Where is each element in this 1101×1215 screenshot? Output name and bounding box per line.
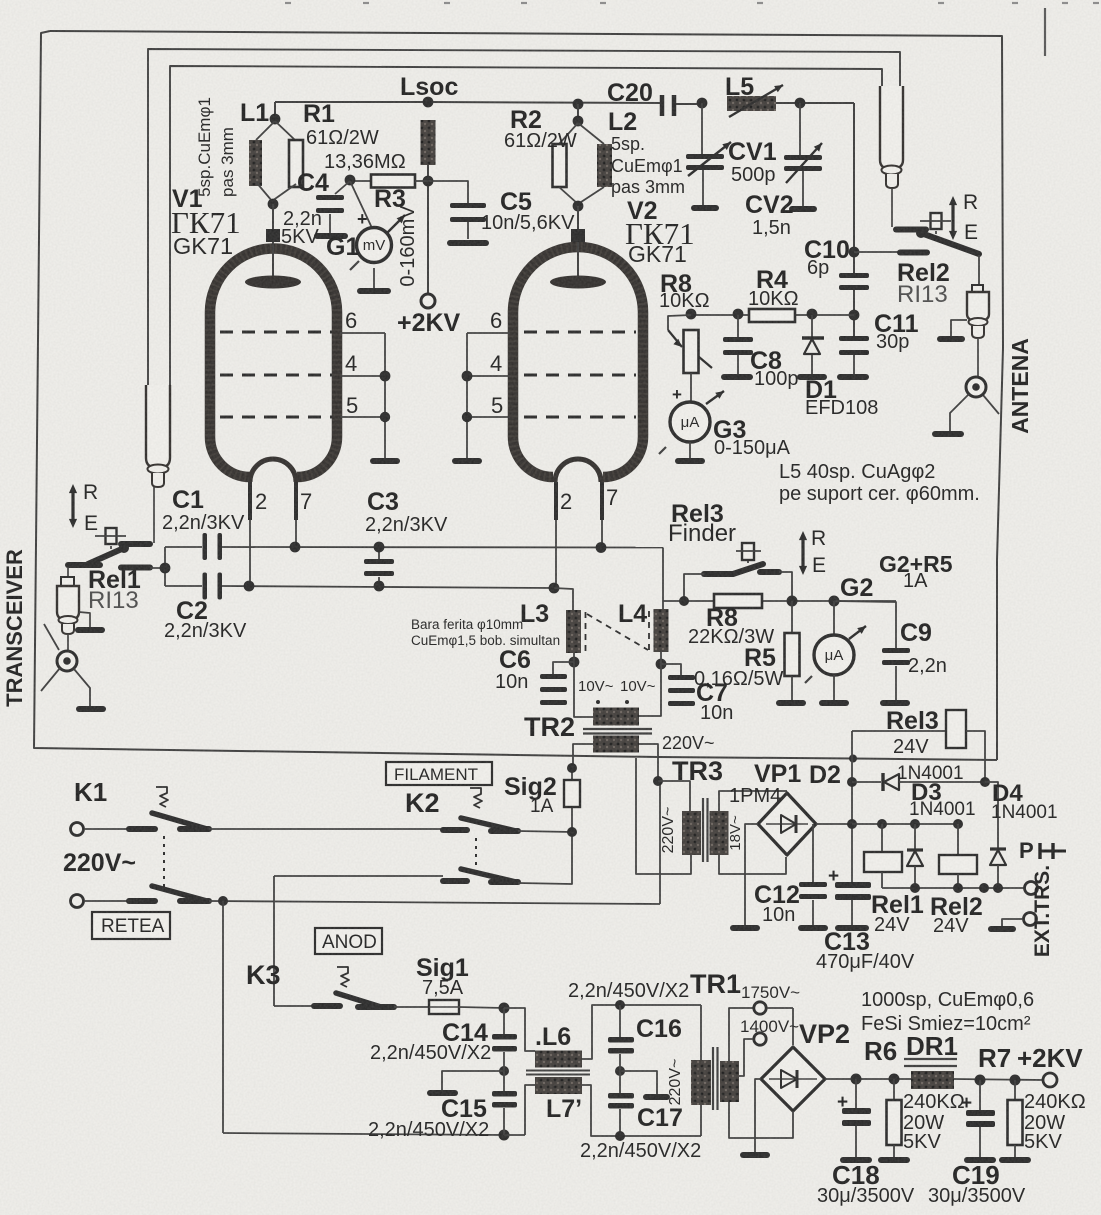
node junction on bottom border wire [849, 755, 857, 763]
wire V2 pin5 [467, 416, 510, 418]
wire mains upper to K2 [209, 828, 443, 830]
variable capacitor CV2 [799, 103, 801, 155]
inductor L2 [597, 144, 612, 187]
coax plug lower (cable to Rel1) [146, 385, 170, 468]
terminal EXT.TRS. [1024, 913, 1037, 926]
ground antenna jack [932, 431, 964, 437]
node V2 anode tap [573, 99, 584, 110]
wire row B to L3 drop [554, 588, 573, 610]
ground C11 [837, 374, 869, 380]
relay Rel3 coil (24V) [851, 731, 853, 758]
resistor R7 bleeder [1014, 1080, 1016, 1100]
transformer TR1 primary [700, 1005, 702, 1060]
resistor R3 13,36M [352, 180, 371, 182]
capacitor C15 [492, 1091, 517, 1097]
V1 anode plate [245, 276, 301, 289]
K1 link dotted [163, 836, 165, 888]
ground C8 [721, 374, 753, 380]
wire antenna tap diagonal [983, 395, 999, 414]
capacitor C19 electrolytic [979, 1080, 981, 1110]
node C3 top [374, 542, 385, 553]
wire K2 pole2 to fuse node [518, 832, 572, 884]
Rel1 switch arm [88, 548, 124, 564]
wire V1 pin5 [340, 416, 385, 418]
wire VP2 minus/ground [755, 1079, 761, 1152]
rectifier bridge VP2 [761, 1047, 825, 1111]
capacitor C18 electrolytic [855, 1079, 857, 1109]
wire TR3 sec bottom to VP1 [719, 855, 786, 874]
antenna jack [966, 377, 986, 397]
tube V1 GK71 envelope [210, 249, 337, 477]
ground C13 [835, 925, 869, 931]
node V1 pin4 [380, 371, 391, 382]
transceiver jack [57, 651, 77, 671]
wire K2 second feed [274, 875, 443, 877]
terminal K1 lower [71, 895, 84, 908]
node Lsoc top [423, 97, 434, 108]
V2 top cap terminal [571, 229, 585, 242]
relay Rel2 coil (24V) [957, 824, 959, 855]
scan artifacts top edge [285, 2, 291, 4]
wire lower contact to node [150, 567, 165, 569]
Rel3 switch arm [733, 564, 763, 574]
wire plug to antenna jack [977, 338, 979, 377]
node rowB tie [160, 563, 171, 574]
relay Rel1 R/E arrow [71, 490, 74, 522]
wire to V2 top cap [577, 206, 579, 230]
inductor L4 (filament choke) [654, 609, 669, 652]
wire L3 to TR2 sec left [574, 653, 594, 717]
terminal +2KV (top) [421, 294, 435, 308]
node C16/C17 mid [615, 1066, 625, 1076]
TR3 core [702, 798, 704, 862]
node trunk/D2 [847, 777, 857, 787]
Rel2 contact R (upper) [896, 227, 926, 233]
K2 link dotted [475, 838, 477, 878]
node filter in [499, 1003, 510, 1014]
V2 pin 7 lead [600, 482, 604, 520]
node R8 rail left [679, 596, 689, 606]
node C18 top [851, 1074, 862, 1085]
resistor R4 [749, 309, 795, 322]
wire L7 left [525, 1085, 535, 1135]
capacitor C5 [428, 181, 468, 203]
wire TR3 feed top [658, 781, 690, 811]
ground V2 grids [452, 458, 482, 464]
wire TR1 sec top to 1750V terminal [729, 1008, 753, 1061]
node Rel2 coil top [953, 819, 963, 829]
K3 spring [337, 967, 349, 987]
resistor R1 [289, 140, 303, 187]
wire plug to Rel1 contact [153, 487, 155, 543]
resistor R2 [559, 123, 578, 144]
node R3 left [345, 175, 356, 186]
ground C19 [964, 1157, 996, 1163]
transformer TR2 primary [593, 736, 639, 753]
terminal 1400V tap [754, 1033, 766, 1045]
wire Rel2 arm to antenna plug [978, 255, 980, 286]
node V2 grid-cap [573, 201, 584, 212]
node trunk/bridge [847, 819, 857, 829]
relay Rel3 coil symbol [742, 543, 754, 560]
capacitor C4 [335, 181, 350, 194]
coax plug transceiver panel [61, 577, 74, 586]
wire Sig1 to filter [459, 1007, 504, 1008]
ground G3 [675, 458, 705, 464]
node R7 top [1010, 1075, 1021, 1086]
wire cathode row B [165, 585, 202, 587]
coax plug upper (to Rel2 from cable) [880, 86, 903, 169]
ground G2 [819, 700, 849, 706]
ground C12 [798, 925, 828, 931]
node C3 bottom [374, 581, 385, 592]
Rel2 R/E arrow [951, 202, 954, 234]
node V2 split [573, 116, 584, 127]
wire coax cable outer run (Rel1 to Rel2 bypass) [148, 49, 900, 385]
terminal K1 upper [71, 823, 84, 836]
TR2 core [583, 728, 652, 730]
K2 spring [470, 788, 482, 808]
Rel3 contact right [760, 569, 779, 575]
ground R7 [999, 1157, 1031, 1163]
capacitor C3 [378, 547, 380, 559]
ground D1 [797, 374, 827, 380]
Rel2 switch arm [921, 233, 979, 254]
ground transceiver plug shell [79, 612, 90, 627]
relay Rel1 coil (24V) [881, 824, 883, 852]
wire anode top rail [275, 101, 428, 103]
transformer TR3 primary [682, 811, 701, 855]
switch K2 pole 2 [443, 878, 467, 884]
wire Rel1 arm to transceiver plug [67, 567, 69, 577]
ground V1 grids [370, 458, 400, 464]
wire L7 right to bottom rail [582, 1085, 701, 1136]
transformer TR1 secondary [720, 1061, 739, 1102]
wire 1400V tap to winding [739, 1039, 753, 1076]
node V2 pin4 [462, 371, 473, 382]
wire V1 pin6 [340, 332, 385, 334]
V2 bottom notch arch [555, 459, 601, 482]
node D1 top [807, 309, 818, 320]
node pin2 V1 row B [244, 581, 255, 592]
wire to V1 top cap [272, 204, 274, 230]
capacitor C9 [834, 601, 896, 648]
node filter mid [499, 1066, 509, 1076]
node C17 bottom [615, 1131, 625, 1141]
wire row A to L4 drop [662, 548, 664, 610]
node C20 out [697, 98, 708, 109]
transformer TR3 secondary [710, 811, 729, 855]
Rel3 R/E arrow [801, 537, 804, 569]
node V1 anode tap [270, 114, 281, 125]
diode D2 [881, 773, 884, 791]
wire meter rail [691, 314, 854, 316]
inductor L3 (filament choke) [566, 610, 581, 653]
diode D4 [985, 782, 998, 849]
meter G2 (uA) [833, 601, 835, 635]
ground R6 [878, 1157, 910, 1163]
wire D2 relay line [852, 781, 881, 783]
capacitor C14 [503, 1008, 505, 1034]
node Rel1 coil top [877, 819, 887, 829]
meter G1 (mV) [350, 181, 372, 228]
wire V2 pin6 [467, 332, 510, 334]
wire relay bus top [852, 823, 958, 825]
capacitor C17 [608, 1093, 634, 1099]
node C19 top [975, 1075, 986, 1086]
wire V1 pin4 [340, 375, 385, 377]
node V1 pin5 [380, 412, 390, 422]
wire L4 to TR2 sec right [639, 652, 661, 716]
node R3/rail junction [423, 176, 434, 187]
wire to L6 [504, 1008, 535, 1051]
Rel3 contact left [704, 571, 733, 577]
wire C10 to Rel2 [854, 251, 898, 253]
relay Rel1 coil symbol [106, 528, 117, 544]
node mains lower split [218, 896, 228, 906]
node V2 pin7 row A [596, 542, 607, 553]
wire HV output rail [825, 1078, 911, 1080]
node V2 pin5 [462, 412, 472, 422]
wire TR3 feed bottom via border wire [636, 758, 691, 874]
wire VP1 minus to ground [745, 824, 758, 925]
terminal 1750V [754, 1002, 766, 1014]
K1 spring [156, 787, 168, 807]
V2 grid dashed electrodes [524, 331, 636, 334]
box ANOD [315, 928, 382, 954]
wire outer border loop (mains/shield routing) [34, 31, 997, 760]
diode D1 [811, 315, 813, 337]
wire L6 right to top rail [582, 1005, 701, 1059]
TR1 core [712, 1047, 714, 1110]
ground transceiver jack [76, 706, 106, 712]
switch K1 pole 1 [84, 828, 131, 830]
capacitor C12 [812, 824, 814, 882]
inductor L1 [256, 121, 275, 140]
Rel1 contact E (lower) [121, 565, 150, 571]
wire plug to Rel2 contact [891, 188, 893, 227]
wire VP1 plus out [816, 823, 853, 825]
node fuse top [567, 763, 577, 773]
node D3 top [910, 819, 920, 829]
node C16 top [615, 1000, 625, 1010]
wire cathode row A [165, 546, 202, 548]
Rel2 contact E (lower) [900, 250, 927, 256]
fuse Sig2 [571, 768, 573, 832]
inductor L7 [535, 1077, 582, 1094]
V1 grid dashed electrodes [220, 331, 332, 334]
variable capacitor CV1 [701, 103, 703, 154]
wire relay bus bottom (PTT) [882, 887, 1024, 889]
wire jack braid left [950, 394, 969, 431]
ferrite bar dashed coupling [585, 612, 587, 652]
ground R5 [776, 700, 806, 706]
tube V2 GK71 envelope [513, 247, 643, 477]
node L5 out [795, 98, 806, 109]
meter G3 (uA) [690, 373, 692, 402]
resistor R6 bleeder [893, 1079, 895, 1100]
node R6 top [889, 1074, 900, 1085]
box FILAMENT [386, 762, 492, 785]
diode D3 (across Rel1) [914, 824, 916, 850]
capacitor C8 [737, 315, 739, 337]
wire G2 rail [663, 600, 714, 602]
node C10/Rel2 [849, 247, 860, 258]
ground C18 [840, 1157, 872, 1163]
ground filter mid [442, 1071, 504, 1090]
V1 top cap terminal [266, 229, 280, 242]
wire row A-B tie [164, 547, 166, 586]
capacitor C6 [553, 662, 574, 674]
jack braid diagonals [44, 624, 59, 650]
Rel1 contact R (upper) [121, 541, 150, 547]
capacitor C1 [203, 533, 208, 560]
terminal PTT [1025, 882, 1038, 895]
L6/L7 core [526, 1070, 590, 1072]
V1 pin 2 lead [248, 482, 252, 520]
node R8 top [686, 309, 697, 320]
relay Rel2 coil symbol [931, 213, 942, 229]
node D2 cathode [980, 777, 990, 787]
wire VP2 bottom / sec bottom [755, 1111, 793, 1138]
wire Rel3 right to G2 rail [779, 572, 792, 601]
inductor L5 (variable tank coil) [727, 96, 776, 111]
node G2 meter [829, 596, 840, 607]
resistor R5 [791, 601, 793, 633]
capacitor C10 [839, 273, 869, 278]
terminal +2KV out [1043, 1073, 1057, 1087]
node TR2 right / mains [653, 776, 663, 786]
inductor L6 [535, 1051, 582, 1068]
node L4 bottom [656, 659, 667, 670]
ground C16/C17 mid [620, 1071, 657, 1094]
wire mains to bottom rail [222, 901, 224, 1133]
wire bottom rail [223, 1133, 504, 1135]
node V1 grid-cap [268, 199, 279, 210]
capacitor C11 [839, 336, 869, 341]
switch K1 pole 2 [84, 900, 131, 902]
wire plug to transceiver jack [67, 634, 69, 651]
Rel1 arm output bar [68, 562, 100, 568]
wire Rel3 left to R8 node [684, 574, 704, 601]
wire DC trunk vertical [851, 758, 853, 883]
wire TR3 sec top to VP1 [719, 791, 787, 811]
node pin7 V1 row A [290, 542, 301, 553]
node V2 pin2 row B [549, 583, 560, 594]
wire coax cable inner run [170, 66, 882, 385]
capacitor C20 (coupling) [660, 95, 665, 116]
V2 anode plate [550, 276, 606, 289]
wire K3 to Sig1 [394, 1006, 429, 1008]
wire mains lower to TR2 right [659, 781, 661, 904]
V1 pin 7 lead [294, 482, 298, 520]
switch K3 [274, 1005, 316, 1007]
node C8 top [733, 309, 744, 320]
V1 bottom notch arch [250, 459, 296, 482]
capacitor C2 [203, 573, 208, 600]
rectifier bridge VP1 [758, 793, 816, 855]
transformer TR2 secondary [593, 708, 639, 726]
node fuse bottom [567, 827, 577, 837]
node bottom rail filter [499, 1130, 510, 1141]
node L3 bottom [569, 657, 580, 668]
wire EXT ground [1002, 919, 1023, 927]
node R5 top [787, 596, 798, 607]
fuse Sig1 [429, 1000, 459, 1014]
choke DR1 [904, 1058, 957, 1060]
box RETEA [92, 912, 170, 939]
resistor R8 22K [714, 594, 762, 608]
wire TR2 primary left [573, 744, 594, 768]
capacitor C16 [619, 1005, 621, 1037]
TR2 polarity dots [596, 700, 600, 704]
inductor Lsoc (anode choke) [421, 120, 436, 165]
capacitor C7 [661, 664, 681, 675]
ground antenna plug shell [951, 320, 967, 336]
switch K2 pole 1 [443, 827, 467, 833]
wire mains lower [209, 901, 660, 904]
V2 pin 2 lead [554, 482, 558, 520]
wire TR2 primary right [639, 744, 658, 781]
node C11 top [849, 310, 860, 321]
coax plug antenna [972, 285, 983, 292]
wire V2 pin4 [467, 375, 510, 377]
potentiometer R8 10K [684, 330, 699, 373]
ground C9 [880, 700, 910, 706]
